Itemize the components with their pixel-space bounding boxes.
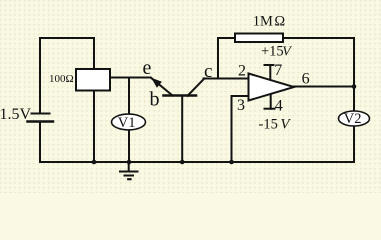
battery B1 top plate: [32, 113, 50, 115]
svg-text:b: b: [150, 89, 160, 111]
svg-text:4: 4: [275, 97, 283, 114]
junction dot node4: [229, 160, 234, 165]
transistor Q1 base bar: [164, 94, 197, 97]
op-amp U1 pin4 lead: [270, 94, 272, 109]
svg-text:100Ω: 100Ω: [49, 73, 74, 85]
wire feedback top left: [218, 37, 235, 39]
wire feedback vertical left: [217, 38, 219, 79]
wire top left horizontal: [40, 37, 94, 39]
junction dot node3: [180, 160, 185, 165]
wire V2 vertical lower: [353, 125, 355, 162]
wire V1 tap vertical upper: [128, 78, 130, 115]
resistor R1 body: [76, 69, 110, 91]
wire left vertical upper: [39, 38, 41, 113]
svg-text:V1: V1: [118, 115, 136, 131]
svg-text:1.5V: 1.5V: [0, 106, 32, 123]
op-amp U1 triangle: [249, 74, 295, 101]
junction dot node1: [92, 160, 97, 165]
wire pin3 vertical: [231, 96, 233, 162]
svg-text:+15V: +15V: [261, 44, 292, 60]
svg-text:2: 2: [238, 62, 246, 79]
op-amp U1 pin4 supply bar: [265, 108, 275, 110]
voltmeter V2: [339, 111, 370, 126]
transistor Q1 emitter diagonal: [152, 78, 173, 95]
junction dot node out: [352, 84, 357, 89]
wire left vertical lower: [39, 123, 41, 163]
ground bar 3: [128, 178, 130, 180]
transistor Q1 collector diagonal: [188, 79, 205, 96]
wire base vertical: [181, 96, 183, 163]
wire V2 vertical upper: [353, 87, 355, 111]
wire pin3 horizontal: [232, 95, 249, 97]
svg-text:-15V: -15V: [259, 117, 292, 133]
wire emitter horizontal: [110, 77, 151, 79]
svg-text:3: 3: [237, 97, 245, 114]
resistor R2 body: [235, 34, 283, 43]
svg-text:V2: V2: [344, 111, 362, 127]
wire below resistor R1: [93, 91, 95, 163]
voltmeter V1: [112, 114, 146, 130]
svg-text:6: 6: [302, 70, 310, 87]
svg-text:1MΩ: 1MΩ: [253, 14, 286, 30]
ground lead: [128, 162, 130, 172]
wire bottom horizontal: [40, 161, 354, 163]
svg-text:e: e: [143, 57, 152, 79]
svg-text:7: 7: [274, 62, 282, 79]
ground bar 1: [120, 171, 138, 173]
wire collector to pin2: [204, 78, 249, 80]
wire op-amp output: [294, 86, 355, 88]
wire into resistor R1 top: [93, 38, 95, 69]
wire feedback vertical right: [353, 38, 355, 87]
battery B1 bottom plate: [28, 120, 54, 123]
wire feedback top right: [283, 37, 354, 39]
transistor Q1 emitter arrowhead: [151, 78, 162, 88]
wire V1 tap vertical lower: [128, 129, 130, 162]
ground bar 2: [125, 175, 134, 177]
junction dot node2 (ground): [127, 160, 132, 165]
op-amp U1 pin7 lead: [269, 65, 271, 80]
svg-text:c: c: [204, 61, 212, 82]
op-amp U1 pin7 supply bar: [265, 64, 274, 66]
